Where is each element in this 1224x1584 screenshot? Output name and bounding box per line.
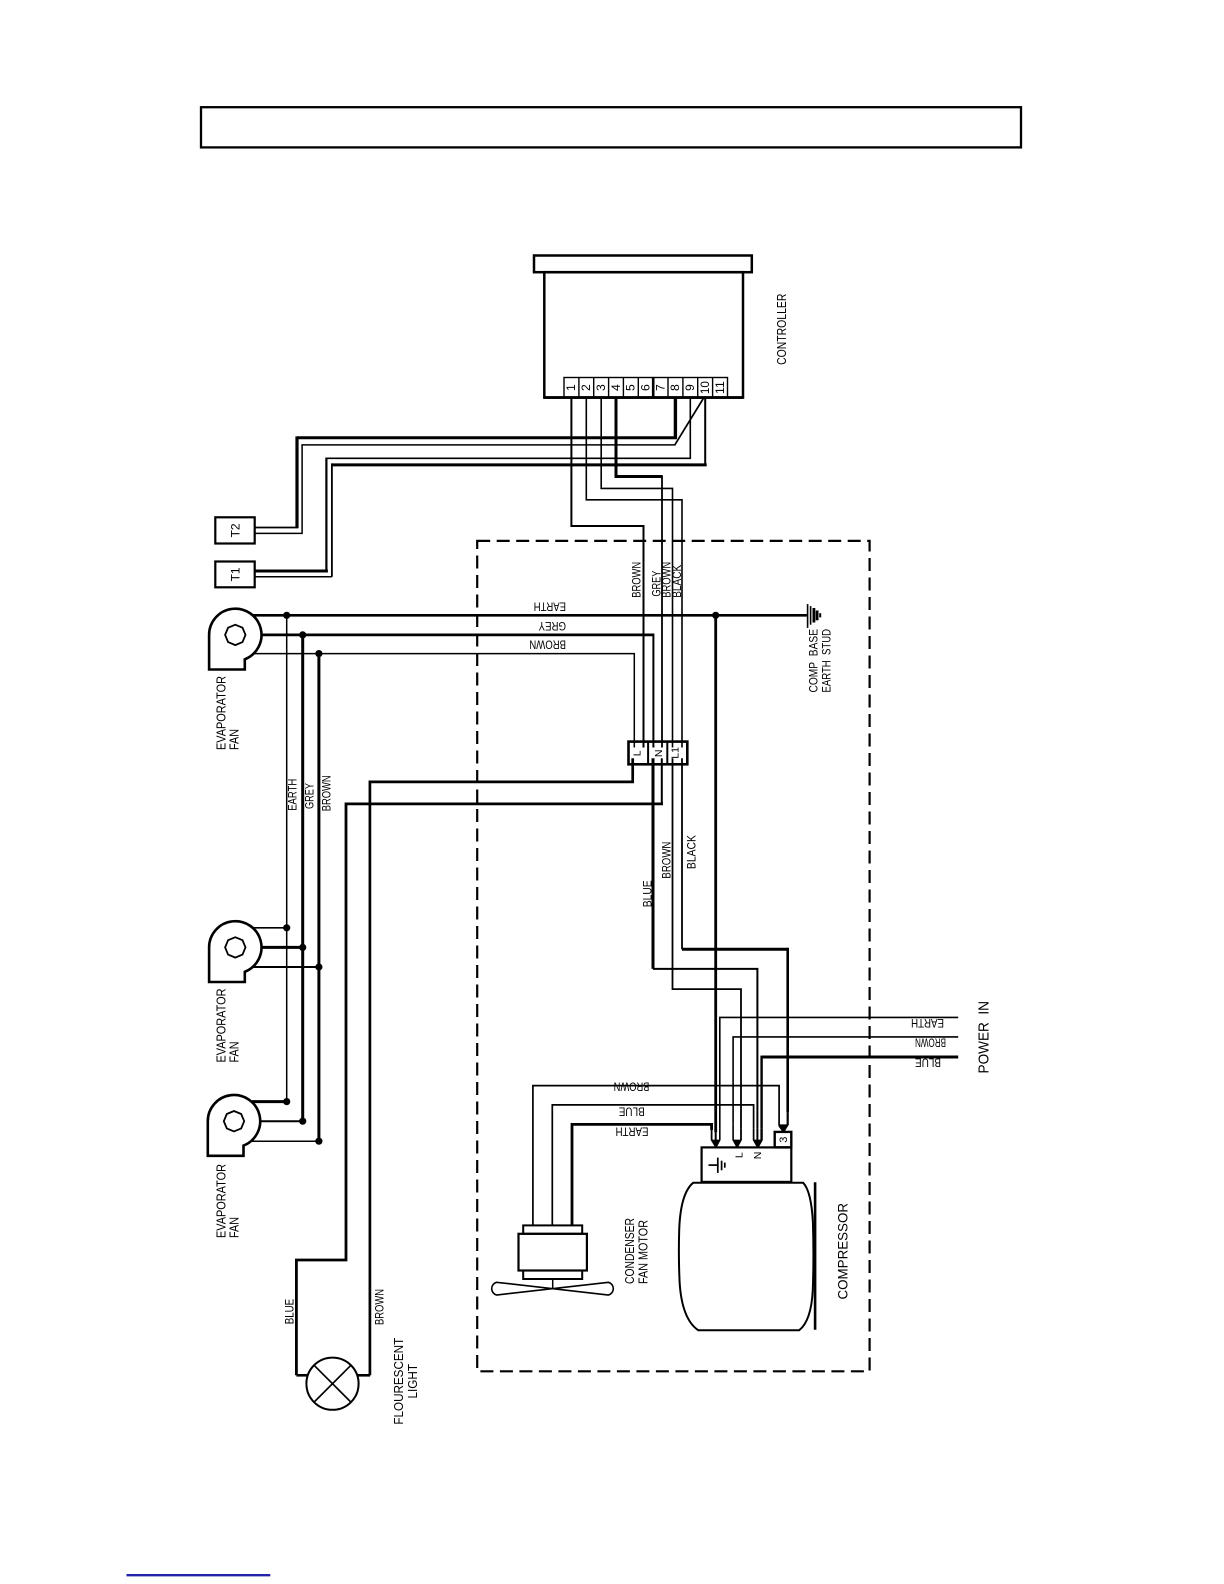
- wire N cell BLUE main down: [652, 758, 655, 969]
- svg-text:3: 3: [594, 384, 608, 391]
- svg-text:BLACK: BLACK: [672, 565, 684, 598]
- junction dots fan3: [283, 1098, 290, 1105]
- title box: [201, 107, 1021, 147]
- svg-text:BLUE: BLUE: [285, 1299, 297, 1325]
- svg-text:FAN: FAN: [227, 729, 242, 750]
- comp base earth stud symbol: [808, 604, 821, 628]
- condenser fan motor BROWN wire: [533, 1086, 779, 1226]
- wire terminal10 vertical drop: [704, 398, 706, 465]
- dashed enclosure box: [477, 541, 869, 1371]
- svg-text:LIGHT: LIGHT: [406, 1364, 420, 1399]
- svg-text:BROWN: BROWN: [631, 562, 643, 598]
- evaporator fan 1 rotor: [225, 625, 245, 645]
- svg-text:T2: T2: [228, 523, 242, 537]
- trunk wire EARTH vertical: [286, 615, 288, 1101]
- arrow converge L terminal: [733, 1124, 737, 1147]
- svg-text:5: 5: [624, 384, 638, 391]
- power in BLUE wire: [762, 1056, 959, 1059]
- wire terminal9 drop: [326, 398, 690, 459]
- wire fan1 earth to stud: [253, 614, 807, 617]
- svg-text:GREY: GREY: [539, 619, 567, 633]
- condenser fan motor body: [519, 1234, 587, 1271]
- fluorescent light lamp: [306, 1358, 358, 1410]
- svg-text:1: 1: [564, 384, 578, 391]
- wire terminal3 to L1 (BROWN): [601, 398, 672, 748]
- svg-text:BROWN: BROWN: [614, 1080, 650, 1094]
- svg-text:POWER IN: POWER IN: [976, 1001, 993, 1074]
- controller terminal strip: [544, 378, 743, 398]
- svg-text:N: N: [752, 1152, 764, 1160]
- wire fan3 brown: [252, 1140, 319, 1142]
- evaporator fan 1 housing: [209, 609, 261, 670]
- wire fan1 brown: [253, 654, 634, 748]
- wire T2 upper stub: [255, 527, 299, 529]
- compressor earth symbol: [709, 1158, 725, 1173]
- arrow converge terminal 3: [779, 1126, 783, 1132]
- trunk wire BROWN vertical: [317, 654, 320, 1142]
- svg-text:BROWN: BROWN: [660, 842, 674, 879]
- controller U1 body: [544, 272, 743, 397]
- wire T2 upper vertical: [295, 436, 298, 527]
- power in EARTH wire: [720, 1017, 958, 1128]
- svg-text:L: L: [632, 750, 644, 756]
- sensor T1: [215, 562, 254, 588]
- wire terminal2 to L1 (BLACK): [586, 398, 682, 748]
- wire N cell to fluorescent BLUE: [661, 758, 663, 804]
- svg-text:11: 11: [713, 381, 727, 394]
- svg-text:FAN: FAN: [227, 1042, 242, 1063]
- wire fan2 grey: [262, 946, 303, 949]
- svg-text:BROWN: BROWN: [915, 1036, 946, 1050]
- condenser fan motor BLUE wire: [552, 1105, 753, 1226]
- svg-text:COMPRESSOR: COMPRESSOR: [836, 1203, 851, 1300]
- wire fan1 grey down to N: [652, 634, 654, 748]
- evaporator fan 3 rotor: [224, 1111, 244, 1131]
- svg-text:FAN: FAN: [227, 1217, 242, 1238]
- svg-text:EARTH: EARTH: [911, 1016, 944, 1030]
- svg-text:BLUE: BLUE: [915, 1056, 941, 1070]
- wire terminal4 to N (GREY) thick part: [616, 398, 662, 477]
- svg-text:FLOURESCENT: FLOURESCENT: [392, 1337, 406, 1424]
- evaporator fan 3 housing: [208, 1095, 260, 1156]
- wire fan1 grey: [262, 634, 654, 637]
- condenser fan motor top flange: [523, 1225, 582, 1233]
- power in BROWN wire: [733, 1037, 958, 1125]
- svg-text:N: N: [653, 750, 665, 758]
- arrow converge N terminal: [754, 1128, 758, 1147]
- wire fan3 earth: [252, 1100, 287, 1103]
- condenser fan propeller: [492, 1282, 614, 1295]
- blue underline bottom left: [127, 1574, 271, 1576]
- evaporator fan 2 housing: [209, 921, 261, 982]
- compressor terminal box: [702, 1147, 792, 1182]
- svg-text:2: 2: [579, 384, 593, 391]
- svg-text:6: 6: [639, 384, 653, 391]
- sensor T2: [215, 517, 254, 543]
- junction dots fan1: [283, 612, 290, 619]
- wire terminal8 drop: [674, 398, 677, 438]
- svg-text:BROWN: BROWN: [322, 775, 334, 811]
- svg-text:BROWN: BROWN: [374, 1289, 386, 1325]
- wire T1 upper vertical: [325, 458, 327, 572]
- compressor side line: [814, 1182, 817, 1330]
- terminal block L N L1: [629, 742, 688, 765]
- wire earth stud to compressor vertical: [714, 615, 717, 1132]
- svg-text:L: L: [733, 1152, 745, 1158]
- svg-text:EARTH: EARTH: [616, 1125, 649, 1139]
- svg-text:COMP BASE: COMP BASE: [808, 629, 820, 693]
- junction dots fan2: [283, 924, 290, 931]
- earth stud junction dot: [712, 612, 719, 619]
- wire terminal4 to N vertical: [661, 475, 663, 747]
- wire T1 upper stub: [255, 570, 328, 573]
- wire fan2 brown: [253, 966, 319, 968]
- svg-text:3: 3: [778, 1137, 790, 1143]
- wire fan2 earth: [253, 927, 287, 929]
- wire diagonal to T2 lower: [255, 445, 676, 534]
- wire T1 lower stub: [255, 576, 332, 578]
- terminal 3 box: [775, 1132, 792, 1148]
- svg-text:CONTROLLER: CONTROLLER: [774, 294, 789, 365]
- svg-text:BLACK: BLACK: [685, 835, 699, 869]
- svg-text:7: 7: [653, 384, 667, 391]
- wire T1 lower vertical: [331, 463, 333, 576]
- svg-text:EARTH STUD: EARTH STUD: [822, 629, 834, 693]
- svg-text:L1: L1: [669, 747, 681, 759]
- svg-text:10: 10: [698, 381, 712, 394]
- svg-text:BLUE: BLUE: [641, 880, 655, 907]
- lamp stubs: [296, 1374, 308, 1377]
- evaporator fan 2 rotor: [225, 937, 245, 957]
- wire terminal1 to L (BROWN): [571, 398, 643, 748]
- wire L cell to fluorescent BROWN: [370, 758, 633, 1375]
- controller U1 top flange: [534, 256, 752, 273]
- condenser fan shaft: [552, 1279, 554, 1289]
- svg-text:EARTH: EARTH: [288, 779, 300, 811]
- compressor body: [679, 1183, 814, 1331]
- svg-text:9: 9: [683, 384, 697, 391]
- wire terminal10 diagonal: [675, 398, 704, 445]
- svg-text:FAN MOTOR: FAN MOTOR: [637, 1220, 651, 1284]
- svg-text:T1: T1: [228, 567, 242, 581]
- wire terminal10 to T1 lower: [332, 463, 707, 466]
- terminal pin numbers 1-11: [564, 381, 727, 394]
- svg-text:EARTH: EARTH: [534, 599, 566, 613]
- svg-text:CONDENSER: CONDENSER: [623, 1218, 637, 1284]
- wire terminal8 to T2 upper: [297, 436, 677, 439]
- wire L1 cell BLACK down: [681, 758, 683, 949]
- arrow converge earth terminal: [712, 1130, 716, 1147]
- svg-text:GREY: GREY: [305, 783, 317, 809]
- wire fan3 grey: [260, 1120, 303, 1122]
- wire L1 cell BROWN main down: [673, 758, 742, 1128]
- svg-text:4: 4: [609, 384, 623, 391]
- condenser fan motor bottom flange: [523, 1271, 582, 1280]
- condenser fan motor EARTH wire: [572, 1124, 712, 1225]
- svg-text:8: 8: [668, 384, 682, 391]
- svg-text:BLUE: BLUE: [619, 1105, 645, 1119]
- trunk wire GREY vertical: [301, 635, 304, 1121]
- svg-text:BROWN: BROWN: [529, 638, 566, 652]
